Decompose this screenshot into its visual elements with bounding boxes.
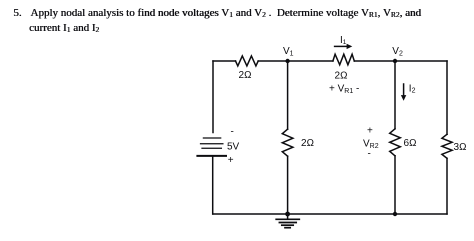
problem statement line 2: [29, 22, 99, 34]
svg-text:I1: I1: [340, 35, 347, 46]
node V2 junction dot: [393, 59, 397, 63]
wire top between R1 and R2: [258, 60, 333, 62]
problem statement line 1: [30, 7, 421, 19]
wire bottom: [213, 213, 447, 215]
svg-text:V2: V2: [392, 46, 403, 58]
svg-text:2Ω: 2Ω: [335, 71, 348, 82]
wire left vertical (bottom): [212, 156, 214, 214]
node V1 junction dot: [285, 59, 289, 63]
wire V2 branch lower: [394, 156, 396, 214]
wire right vertical lower: [446, 158, 448, 214]
wire left vertical (top): [212, 61, 214, 133]
svg-text:5V: 5V: [227, 142, 240, 153]
wire top-left segment: [213, 60, 236, 62]
svg-text:I2: I2: [409, 83, 416, 94]
svg-text:+: +: [228, 155, 234, 166]
battery V1 5V: [197, 138, 226, 156]
resistor 3ohm vertical (right): [442, 134, 452, 158]
wire V2 branch upper: [394, 61, 396, 129]
current arrow I1: [335, 44, 353, 49]
wire top-right segment: [354, 60, 447, 62]
wire V1 branch lower: [287, 156, 289, 214]
svg-text:6Ω: 6Ω: [404, 138, 417, 149]
svg-text:V1: V1: [283, 46, 294, 58]
resistor 6ohm vertical (under V2): [390, 129, 401, 156]
svg-text:+ VR1 -: + VR1 -: [329, 84, 359, 96]
ground node dot: [285, 212, 290, 217]
svg-text:+: +: [367, 126, 373, 137]
svg-text:-: -: [231, 127, 234, 138]
current arrow I2: [401, 84, 406, 101]
wire right vertical upper: [446, 61, 448, 134]
wire V1 branch upper: [287, 61, 289, 129]
svg-text:3Ω: 3Ω: [454, 142, 467, 153]
svg-text:-: -: [368, 149, 371, 160]
node dot bottom V2: [393, 212, 397, 216]
problem statement line 1 number: [13, 7, 21, 19]
resistor 2ohm series (left horizontal): [236, 56, 259, 66]
ground symbol: [276, 214, 299, 228]
svg-text:2Ω: 2Ω: [301, 138, 314, 149]
resistor 2ohm middle (horizontal between V1 and V2): [333, 54, 354, 65]
svg-text:2Ω: 2Ω: [239, 70, 252, 81]
svg-text:VR2: VR2: [363, 138, 379, 150]
resistor 2ohm vertical (under V1): [282, 129, 293, 156]
